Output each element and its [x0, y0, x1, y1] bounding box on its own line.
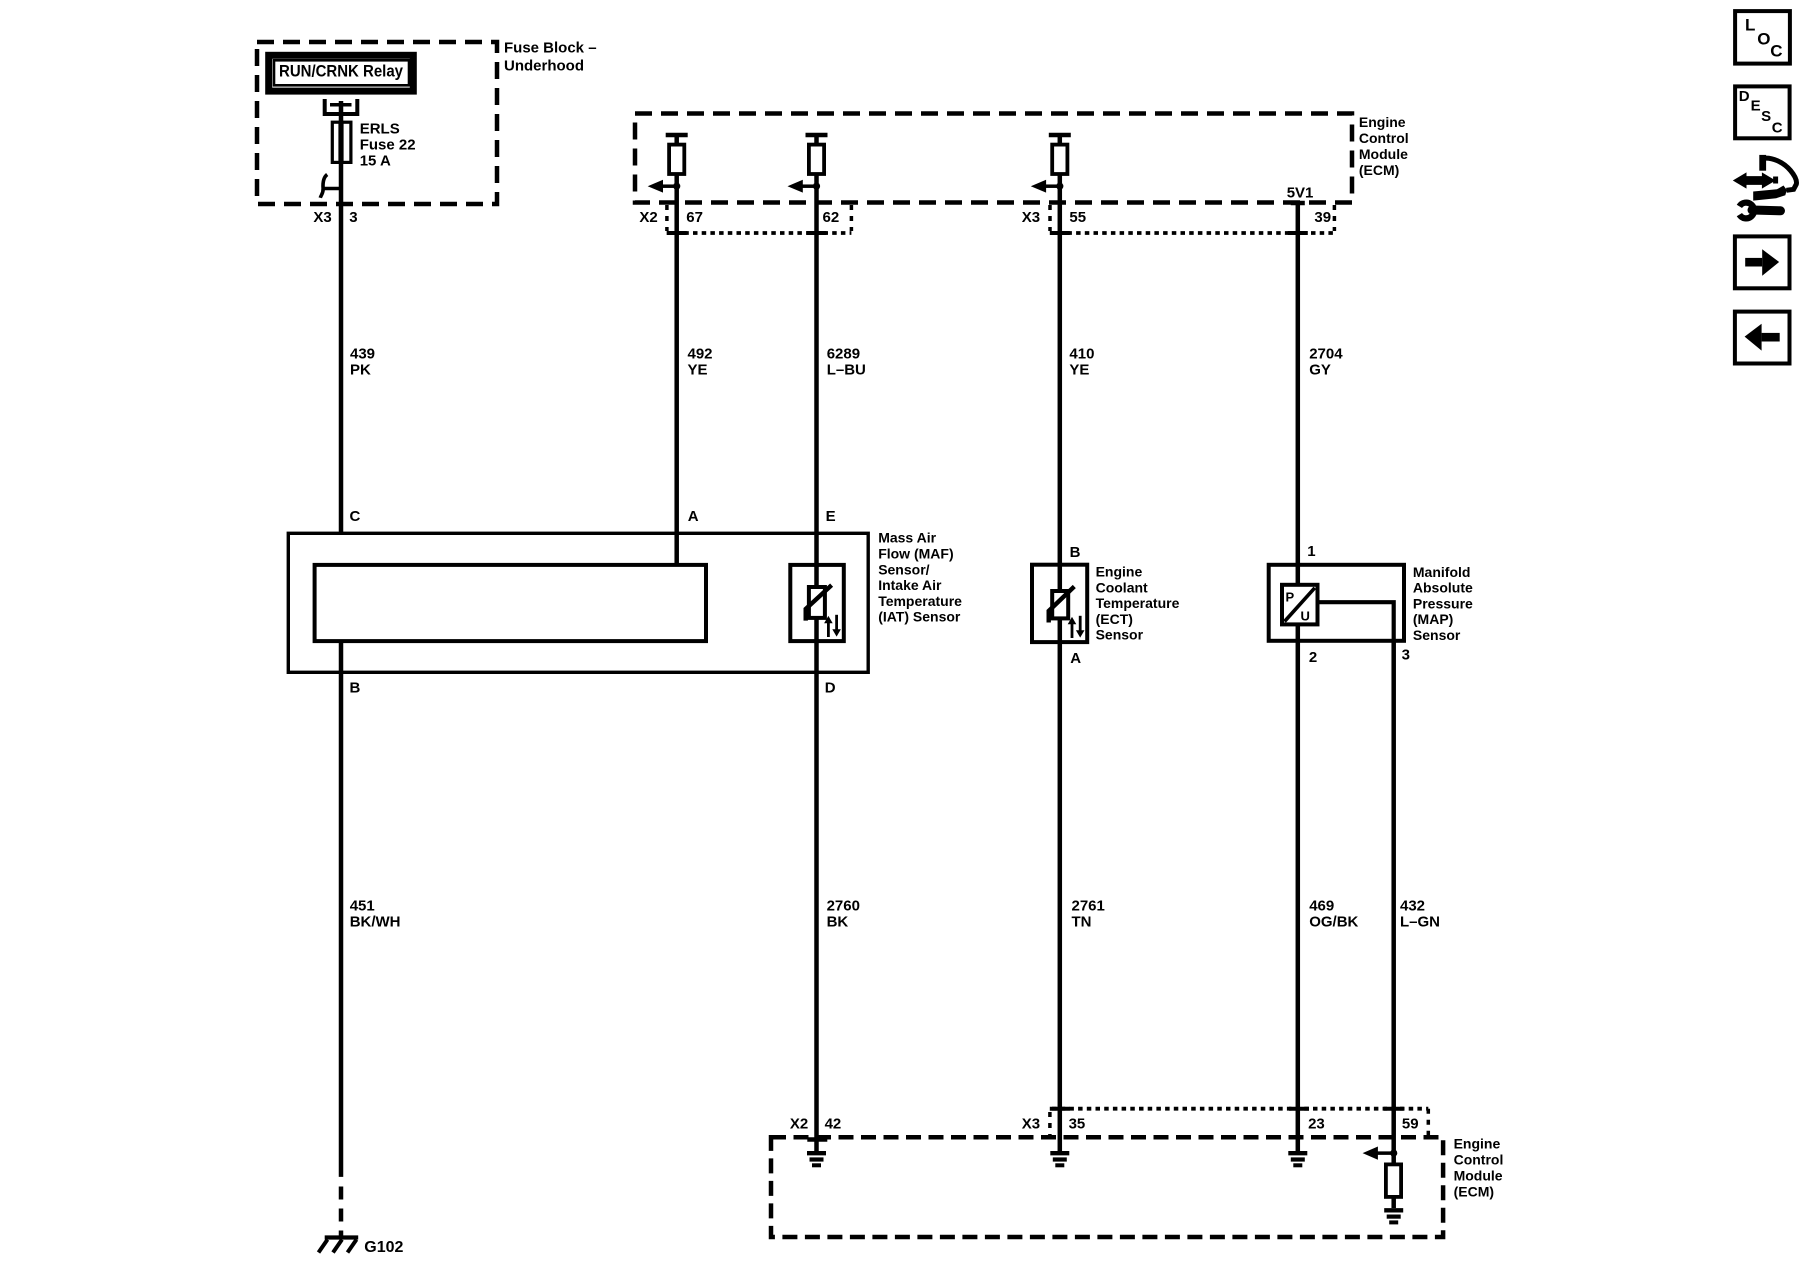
- tick pin 42: [807, 1137, 827, 1142]
- svg-text:BK/WH: BK/WH: [350, 914, 401, 931]
- arrow to ECM internal (left): [1044, 184, 1060, 188]
- wire 492 YE vertical: [674, 137, 679, 565]
- DESC button: [1735, 86, 1790, 138]
- svg-text:Control: Control: [1359, 130, 1409, 146]
- svg-text:42: 42: [825, 1116, 842, 1133]
- wire from P/U to pin 3: [1318, 602, 1394, 641]
- svg-text:BK: BK: [827, 914, 849, 931]
- svg-text:U: U: [1301, 609, 1310, 624]
- svg-text:(ECT): (ECT): [1096, 611, 1133, 627]
- svg-text:3: 3: [1402, 647, 1410, 664]
- svg-text:L–BU: L–BU: [827, 362, 866, 379]
- svg-text:O: O: [1757, 29, 1770, 48]
- LOC button: [1735, 11, 1790, 64]
- navigation icon (double arrow / pointer / wrench): [1733, 155, 1797, 219]
- resistor internal ECM (MAF signal pull-up): [666, 133, 688, 138]
- svg-text:Engine: Engine: [1096, 564, 1143, 580]
- svg-text:Sensor: Sensor: [1413, 627, 1461, 643]
- svg-text:Pressure: Pressure: [1413, 595, 1473, 611]
- wire 432 L-GN from MAP pin 3 down: [1391, 641, 1396, 1153]
- wire 6289 L-BU vertical: [814, 137, 819, 567]
- svg-text:Fuse Block –: Fuse Block –: [504, 40, 597, 57]
- svg-text:55: 55: [1069, 209, 1086, 226]
- ECT sensor box: [1032, 565, 1087, 642]
- MAP sensor box: [1269, 565, 1404, 641]
- svg-text:G102: G102: [364, 1239, 403, 1256]
- svg-text:451: 451: [350, 898, 375, 915]
- svg-text:Engine: Engine: [1359, 114, 1406, 130]
- svg-text:Manifold: Manifold: [1413, 564, 1471, 580]
- resistor internal ECM (IAT pull-up): [806, 133, 828, 138]
- svg-text:Absolute: Absolute: [1413, 580, 1473, 596]
- svg-text:X2: X2: [639, 209, 657, 226]
- svg-text:X2: X2: [790, 1116, 808, 1133]
- svg-text:ERLS: ERLS: [360, 120, 400, 137]
- tick pin 59: [1384, 1107, 1404, 1111]
- MAF element inner box: [315, 565, 706, 641]
- svg-text:P: P: [1286, 590, 1295, 605]
- svg-text:PK: PK: [350, 362, 371, 379]
- svg-text:Engine: Engine: [1454, 1136, 1501, 1152]
- svg-text:3: 3: [349, 209, 357, 226]
- arrow to ECM internal (left): [661, 184, 677, 188]
- ECT variable arrows: [1071, 622, 1074, 638]
- svg-text:469: 469: [1309, 898, 1334, 915]
- wire 410 YE vertical: [1058, 137, 1063, 565]
- svg-text:S: S: [1761, 108, 1771, 125]
- svg-text:Temperature: Temperature: [1096, 595, 1180, 611]
- fuse holder tee: [330, 103, 352, 107]
- svg-text:15 A: 15 A: [360, 152, 391, 169]
- svg-text:RUN/CRNK Relay: RUN/CRNK Relay: [279, 62, 403, 81]
- svg-text:(ECM): (ECM): [1454, 1184, 1494, 1200]
- svg-text:C: C: [1770, 42, 1782, 61]
- IAT thermistor element: [809, 587, 825, 618]
- svg-text:C: C: [1772, 119, 1783, 136]
- svg-text:L: L: [1745, 15, 1755, 34]
- forward arrow button: [1735, 236, 1790, 288]
- svg-text:Fuse 22: Fuse 22: [360, 136, 416, 153]
- chassis ground G102: [325, 1235, 359, 1239]
- svg-text:67: 67: [686, 209, 703, 226]
- IAT thermistor box: [790, 565, 844, 641]
- tick pin 55: [1050, 231, 1070, 235]
- wire 451 BK/WH from MAF pin B down: [339, 672, 344, 1177]
- svg-text:Sensor/: Sensor/: [878, 561, 929, 577]
- svg-text:Control: Control: [1454, 1152, 1504, 1168]
- svg-text:A: A: [688, 508, 699, 525]
- svg-text:59: 59: [1402, 1116, 1419, 1133]
- wire 2761 TN from ECT pin A down: [1058, 642, 1063, 1151]
- svg-text:2: 2: [1309, 649, 1317, 666]
- junction dot: [813, 183, 820, 190]
- svg-text:TN: TN: [1072, 914, 1092, 931]
- connector X3 strip (pins 55,39): [1048, 205, 1052, 231]
- wire from relay through fuse: [339, 101, 344, 533]
- connector X2 strip (pins 67,62): [665, 205, 669, 231]
- svg-text:A: A: [1070, 650, 1081, 667]
- back arrow button: [1735, 312, 1790, 364]
- svg-text:410: 410: [1069, 346, 1094, 363]
- wire 2760 BK from IAT pin D down: [814, 672, 819, 1151]
- svg-text:C: C: [350, 508, 361, 525]
- svg-text:X3: X3: [1022, 209, 1040, 226]
- svg-text:B: B: [350, 680, 361, 697]
- connector strip X3 bottom (fine dotted): [1052, 1107, 1428, 1111]
- svg-text:439: 439: [350, 346, 375, 363]
- svg-text:Underhood: Underhood: [504, 58, 584, 75]
- junction dot: [1056, 183, 1063, 190]
- svg-text:X3: X3: [313, 209, 331, 226]
- tick pin 62: [807, 231, 827, 235]
- wire inside MAP box (pin1 to P/U, P/U to pin2): [1296, 565, 1301, 585]
- svg-text:2761: 2761: [1072, 898, 1105, 915]
- svg-text:GY: GY: [1309, 362, 1331, 379]
- wire to G102 dashed: [339, 1187, 344, 1236]
- ECM bottom dashed box: [771, 1137, 1443, 1237]
- svg-text:E: E: [826, 508, 836, 525]
- wire E inside thermistor box: [814, 565, 819, 587]
- MAF sensor outer box: [288, 533, 868, 672]
- svg-text:L–GN: L–GN: [1400, 914, 1440, 931]
- tick pin 39: [1288, 231, 1308, 235]
- ground internal ECM (pin 59 resistor): [1384, 1208, 1403, 1212]
- svg-text:Intake Air: Intake Air: [878, 577, 942, 593]
- fuse holder cup: [325, 99, 358, 114]
- wire B segment (341) inner box to outer box bottom: [339, 641, 344, 672]
- svg-text:E: E: [1751, 98, 1761, 115]
- svg-text:1: 1: [1307, 543, 1315, 560]
- resistor internal ECM (ECT pull-up): [1049, 133, 1071, 138]
- fuse ERLS Fuse 22 15A: [332, 122, 351, 162]
- relay RUN/CRNK Relay: [269, 55, 414, 91]
- IAT variable arrows: [827, 621, 830, 637]
- svg-text:Module: Module: [1454, 1168, 1503, 1184]
- ECT thermistor element: [1052, 591, 1068, 618]
- svg-text:OG/BK: OG/BK: [1309, 914, 1358, 931]
- separator X3/35: [1048, 1112, 1052, 1135]
- P/U transducer box: [1282, 585, 1318, 625]
- wire 2704 GY vertical with tee at ECM edge: [1291, 201, 1305, 206]
- svg-text:23: 23: [1308, 1116, 1325, 1133]
- svg-text:Mass Air: Mass Air: [878, 530, 936, 546]
- ground internal ECM (pin 23): [1288, 1151, 1307, 1155]
- junction dot pin 59: [1390, 1150, 1397, 1157]
- ECM dashed box: [635, 114, 1352, 203]
- tick pin 67: [667, 231, 687, 235]
- svg-text:5V1: 5V1: [1287, 185, 1314, 202]
- svg-text:39: 39: [1314, 209, 1331, 226]
- svg-text:6289: 6289: [827, 346, 860, 363]
- wire inside ECT box: [1058, 565, 1063, 591]
- ground internal ECM (pin 35): [1050, 1151, 1069, 1155]
- svg-text:35: 35: [1069, 1116, 1086, 1133]
- svg-text:Temperature: Temperature: [878, 593, 962, 609]
- resistor internal ECM (pin 59): [1391, 1153, 1396, 1208]
- svg-text:B: B: [1070, 544, 1081, 561]
- svg-text:YE: YE: [688, 362, 708, 379]
- connector tick: [323, 187, 340, 191]
- svg-text:2760: 2760: [827, 898, 860, 915]
- tick pin 23: [1289, 1107, 1309, 1111]
- tick pin 35: [1050, 1107, 1070, 1111]
- svg-text:Module: Module: [1359, 146, 1408, 162]
- svg-text:(IAT) Sensor: (IAT) Sensor: [878, 609, 961, 625]
- svg-text:Coolant: Coolant: [1096, 579, 1148, 595]
- svg-text:D: D: [1739, 88, 1750, 105]
- junction dot: [673, 183, 680, 190]
- svg-text:2704: 2704: [1309, 346, 1343, 363]
- svg-text:YE: YE: [1069, 362, 1089, 379]
- svg-text:(MAP): (MAP): [1413, 611, 1453, 627]
- fuse block - underhood dashed box: [257, 42, 497, 204]
- wire 469 OG/BK from MAP pin 2 down: [1296, 641, 1301, 1151]
- svg-text:D: D: [825, 680, 836, 697]
- svg-text:Flow (MAF): Flow (MAF): [878, 546, 953, 562]
- svg-text:62: 62: [823, 209, 840, 226]
- connector terminal hook X3: [320, 175, 327, 198]
- arrow to ECM internal (left): [801, 184, 817, 188]
- arrow to ECM internal (pin 59): [1376, 1151, 1394, 1155]
- svg-text:X3: X3: [1022, 1116, 1040, 1133]
- svg-text:(ECM): (ECM): [1359, 162, 1399, 178]
- svg-text:492: 492: [688, 346, 713, 363]
- svg-text:432: 432: [1400, 898, 1425, 915]
- ground internal ECM (pin 42): [807, 1151, 826, 1155]
- svg-text:Sensor: Sensor: [1096, 627, 1144, 643]
